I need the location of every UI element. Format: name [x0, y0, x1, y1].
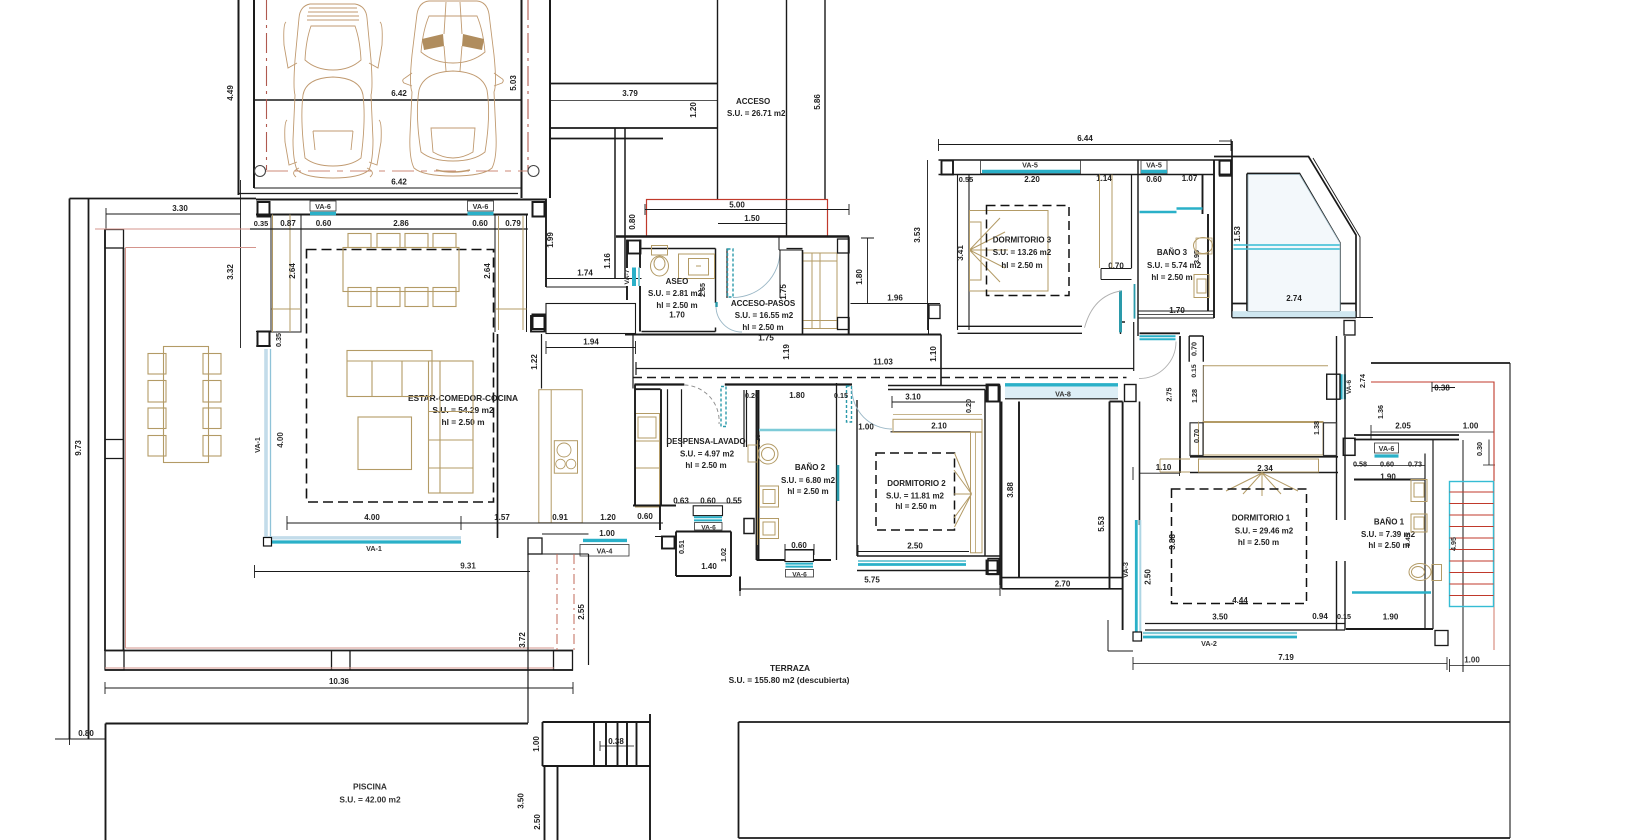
terrace bottom wall double [105, 651, 573, 671]
door frame teal [728, 249, 734, 297]
bottom wall [857, 556, 1000, 571]
svg-text:3.10: 3.10 [905, 393, 921, 402]
wall top (1.90 dim zone) [1354, 465, 1425, 467]
dining table indoor [343, 234, 459, 307]
svg-text:1.00: 1.00 [1463, 422, 1479, 431]
svg-text:2.64: 2.64 [483, 263, 492, 279]
svg-text:2.50: 2.50 [907, 542, 923, 551]
aseo fixtures [651, 246, 715, 279]
svg-text:1.36: 1.36 [1376, 405, 1385, 419]
dim 0.30 [1483, 440, 1495, 466]
dim 1.96 [851, 303, 941, 305]
svg-text:1.40: 1.40 [701, 562, 717, 571]
VA-1 window west (vertical) [253, 349, 285, 540]
closet inner tan lines [272, 215, 302, 333]
svg-text:1.20: 1.20 [689, 102, 698, 118]
right outer boundary [1509, 363, 1511, 838]
0.70 box [1101, 269, 1132, 280]
svg-text:VA-6: VA-6 [792, 572, 807, 579]
svg-text:VA-5: VA-5 [1146, 161, 1162, 170]
dorm2 door arc [852, 389, 892, 429]
svg-text:0.55: 0.55 [726, 497, 742, 506]
VA-6 window bano2 [785, 550, 814, 579]
svg-text:1.16: 1.16 [603, 253, 612, 269]
svg-text:4.00: 4.00 [276, 432, 285, 448]
acceso corridor wall left [717, 0, 719, 199]
corridor dashed line [633, 377, 1127, 379]
bano3 fixtures [1194, 238, 1213, 298]
svg-text:hl = 2.50 m: hl = 2.50 m [1368, 541, 1409, 550]
bed dorm1 [1160, 422, 1337, 497]
svg-text:3.88: 3.88 [1168, 534, 1177, 550]
svg-text:DORMITORIO 2: DORMITORIO 2 [887, 479, 946, 488]
dim 0.80 [55, 733, 105, 745]
svg-text:0.79: 0.79 [505, 219, 521, 228]
red dashed verticals below kitchen [557, 554, 574, 650]
despensa door arc [685, 385, 720, 424]
svg-text:S.U. = 4.97 m2: S.U. = 4.97 m2 [680, 450, 735, 459]
svg-text:1.22: 1.22 [530, 354, 539, 370]
svg-text:10.36: 10.36 [329, 677, 350, 686]
svg-text:TERRAZA: TERRAZA [770, 663, 810, 673]
VA window dorm2 south [858, 560, 966, 562]
house north wall over aseo [616, 235, 849, 237]
dim line 6.42 top [254, 99, 522, 101]
west wall columns [258, 202, 270, 217]
walls [635, 383, 853, 385]
dim 0.38 strike [1432, 382, 1455, 392]
svg-text:1.94: 1.94 [583, 338, 599, 347]
garage south edge [239, 193, 519, 195]
VA-2 window [1133, 632, 1297, 648]
VA-6 vertical window dorm1 NE [1342, 374, 1345, 399]
svg-text:1.53: 1.53 [1233, 226, 1242, 242]
svg-text:DORMITORIO 1: DORMITORIO 1 [1232, 514, 1291, 523]
car 1 [284, 4, 383, 178]
svg-text:3.95: 3.95 [1192, 250, 1201, 264]
VA-1 window south (horizontal) [264, 538, 462, 554]
dim 2.10 [891, 431, 972, 433]
svg-text:1.10: 1.10 [929, 346, 938, 362]
svg-text:S.U. = 2.81 m2: S.U. = 2.81 m2 [648, 289, 703, 298]
dim 1.80 vertical [867, 238, 869, 304]
top wall right area [1371, 362, 1510, 364]
red dash-dot garage edges [267, 0, 529, 170]
svg-text:1.02: 1.02 [719, 548, 728, 562]
svg-text:3.53: 3.53 [913, 227, 922, 243]
small room 1.40 [676, 532, 731, 577]
terrace top edge [70, 198, 257, 200]
svg-text:2.65: 2.65 [698, 283, 707, 297]
walls [1354, 479, 1425, 481]
acceso corridor wall right [824, 0, 826, 199]
west closet band [271, 215, 301, 333]
pool top edge [106, 723, 529, 725]
svg-text:2.20: 2.20 [1024, 175, 1040, 184]
svg-text:1.00: 1.00 [858, 423, 874, 432]
svg-text:DESPENSA-LAVADO: DESPENSA-LAVADO [666, 437, 745, 446]
dim 0.60 [785, 549, 814, 551]
bano2 teal door right [837, 465, 840, 501]
svg-text:2.64: 2.64 [288, 263, 297, 279]
svg-text:2.74: 2.74 [1358, 374, 1367, 388]
dorm3 door arc [1085, 291, 1121, 328]
svg-text:2.86: 2.86 [393, 219, 409, 228]
svg-text:hl = 2.50 m: hl = 2.50 m [895, 502, 936, 511]
bed dorm2 [954, 432, 982, 553]
right wall [1337, 336, 1346, 630]
svg-text:6.42: 6.42 [391, 178, 407, 187]
svg-text:hl = 2.50 m: hl = 2.50 m [1001, 261, 1042, 270]
svg-text:1.07: 1.07 [1182, 174, 1198, 183]
svg-text:VA-6: VA-6 [1379, 444, 1395, 453]
column below [1435, 631, 1448, 646]
dim line top [250, 228, 528, 230]
svg-text:0.45: 0.45 [1405, 533, 1412, 546]
aseo left wall [627, 240, 640, 269]
svg-text:0.70: 0.70 [1108, 262, 1124, 271]
pasos closet [803, 253, 837, 329]
VA-6 window living 1 [310, 201, 336, 214]
bano2 fixtures [748, 440, 779, 545]
svg-text:3.41: 3.41 [956, 245, 965, 261]
svg-text:2.34: 2.34 [1257, 464, 1273, 473]
svg-text:1.80: 1.80 [789, 391, 805, 400]
svg-text:0.60: 0.60 [700, 497, 716, 506]
steps lower box [545, 766, 651, 840]
svg-text:hl = 2.50 m: hl = 2.50 m [742, 323, 783, 332]
VA-4 window [580, 540, 629, 556]
svg-text:5.03: 5.03 [509, 75, 518, 91]
svg-text:3.88: 3.88 [1006, 482, 1015, 498]
svg-text:1.70: 1.70 [669, 311, 685, 320]
teal door frame despensa [721, 387, 726, 427]
north wall living double [256, 200, 546, 215]
bed zone dark lines [1190, 457, 1338, 473]
svg-text:BAÑO 1: BAÑO 1 [1374, 518, 1405, 527]
svg-text:0.30: 0.30 [1475, 442, 1484, 456]
svg-text:5.53: 5.53 [1097, 516, 1106, 532]
bano3 cyan line [1140, 209, 1203, 213]
svg-text:S.U. = 6.80 m2: S.U. = 6.80 m2 [781, 476, 836, 485]
despensa west counter [636, 414, 660, 508]
VA-5 window 1 [981, 161, 1081, 174]
counter below aseo [546, 304, 636, 334]
svg-text:1.19: 1.19 [782, 344, 791, 360]
inner [1247, 174, 1340, 312]
dim line 3.32 vertical [240, 180, 242, 348]
svg-text:2.50: 2.50 [1144, 569, 1153, 585]
svg-text:hl = 2.50 m: hl = 2.50 m [787, 487, 828, 496]
dashed rect dorm3 [987, 206, 1070, 296]
svg-text:0.70: 0.70 [1192, 429, 1201, 443]
vertical wall x1180 [1179, 336, 1181, 473]
svg-text:0.70: 0.70 [1190, 342, 1199, 356]
svg-text:BAÑO 2: BAÑO 2 [795, 463, 826, 472]
svg-text:3.79: 3.79 [622, 89, 638, 98]
west wall lower segment [256, 332, 271, 347]
dim 1.94 [546, 341, 636, 354]
svg-text:VA-8: VA-8 [1055, 390, 1071, 399]
svg-text:0.60: 0.60 [791, 541, 807, 550]
walkway edge top [550, 83, 718, 85]
frame box va6 vertical [1327, 374, 1340, 399]
columns [987, 385, 999, 402]
column bottom-right [554, 651, 573, 671]
dim line 6.42 bottom [254, 187, 522, 189]
svg-text:1.10: 1.10 [1156, 463, 1172, 472]
VA-3 window [1121, 520, 1140, 633]
dim line 3.30 [106, 213, 241, 215]
svg-text:hl = 2.50 m: hl = 2.50 m [656, 301, 697, 310]
wall kitchen-east / steps verticals below [498, 334, 589, 723]
svg-text:ACCESO: ACCESO [736, 97, 770, 106]
svg-text:0.94: 0.94 [1312, 612, 1328, 621]
svg-text:DORMITORIO 3: DORMITORIO 3 [993, 236, 1052, 245]
svg-text:hl = 2.50 m: hl = 2.50 m [685, 461, 726, 470]
svg-text:S.U. = 16.55 m2: S.U. = 16.55 m2 [735, 311, 794, 320]
wardrobe tan lines [1203, 366, 1328, 423]
north wall [939, 160, 1232, 175]
svg-text:4.49: 4.49 [226, 85, 235, 101]
svg-text:2.50: 2.50 [533, 814, 542, 830]
svg-text:BAÑO 3: BAÑO 3 [1157, 248, 1188, 257]
svg-text:9.73: 9.73 [74, 440, 83, 456]
svg-text:0.80: 0.80 [628, 214, 637, 230]
svg-text:1.90: 1.90 [1380, 473, 1396, 482]
bay glass tint [1248, 175, 1340, 312]
left wall [1139, 402, 1141, 526]
svg-text:0.55: 0.55 [959, 175, 973, 184]
wall right of pasos [928, 304, 930, 335]
svg-text:5.00: 5.00 [729, 201, 745, 210]
svg-text:S.U. = 155.80 m2 (descubierta): S.U. = 155.80 m2 (descubierta) [729, 675, 850, 685]
svg-text:0.58: 0.58 [1353, 460, 1367, 469]
svg-text:9.31: 9.31 [460, 562, 476, 571]
svg-text:2.10: 2.10 [931, 422, 947, 431]
svg-text:S.U. = 29.46 m2: S.U. = 29.46 m2 [1235, 527, 1294, 536]
svg-text:VA-6: VA-6 [473, 202, 489, 211]
VA-8 window [988, 385, 1136, 402]
svg-text:ASEO: ASEO [666, 277, 689, 286]
bottom wall [1145, 624, 1345, 631]
dim 1.00 bottom right [1450, 650, 1511, 672]
svg-text:4.44: 4.44 [1232, 596, 1248, 605]
column bottom-right [1344, 321, 1355, 336]
column SE [533, 315, 545, 330]
svg-text:3.50: 3.50 [517, 793, 526, 809]
porch red rect [647, 200, 828, 237]
room walls [727, 249, 803, 299]
svg-text:0.20: 0.20 [964, 399, 973, 413]
dim 0.38 [600, 741, 634, 751]
left vertical wall from garage [545, 199, 547, 288]
svg-text:VA-1: VA-1 [366, 544, 382, 553]
dorm3 door leaf [1119, 291, 1122, 333]
bano1 fixtures [1409, 480, 1442, 581]
closet columns [838, 237, 941, 335]
terrace inner columns band left [105, 230, 124, 652]
svg-text:VA-6: VA-6 [315, 202, 331, 211]
svg-text:3.50: 3.50 [1212, 613, 1228, 622]
svg-text:S.U. = 11.81 m2: S.U. = 11.81 m2 [886, 492, 945, 501]
svg-text:11.03: 11.03 [873, 358, 893, 367]
svg-text:S.U. = 54.29 m2: S.U. = 54.29 m2 [432, 405, 494, 415]
svg-text:1.14: 1.14 [1096, 174, 1112, 183]
outer [1232, 141, 1356, 318]
bay glass cyan [1234, 244, 1341, 246]
svg-text:0.51: 0.51 [677, 540, 686, 554]
svg-text:1.99: 1.99 [546, 232, 555, 248]
corridor south wall (long) [625, 333, 941, 335]
vertical 1463 [1462, 440, 1464, 650]
svg-text:0.80: 0.80 [78, 729, 94, 738]
svg-text:1.57: 1.57 [494, 513, 510, 522]
steps top area [543, 722, 651, 766]
porch dim lines [645, 204, 849, 224]
teal door frame dorm2 [847, 386, 852, 422]
svg-text:0.15: 0.15 [834, 391, 848, 400]
dashed rect dorm1 [1172, 489, 1307, 604]
svg-text:1.75: 1.75 [779, 284, 788, 300]
left wall [856, 400, 858, 556]
svg-text:0.60: 0.60 [1380, 460, 1394, 469]
svg-text:0.20: 0.20 [745, 391, 759, 400]
car 2 [403, 1, 504, 176]
NE column dorm1 [1343, 438, 1355, 455]
svg-text:1.90: 1.90 [1383, 613, 1399, 622]
svg-text:1.28: 1.28 [1190, 389, 1199, 403]
svg-text:VA-6: VA-6 [701, 525, 716, 532]
svg-text:0.15: 0.15 [1191, 364, 1198, 377]
svg-text:5.75: 5.75 [864, 576, 880, 585]
0.70 box upper [1189, 336, 1203, 362]
svg-text:1.00: 1.00 [1464, 656, 1480, 665]
dim 9.31 [255, 565, 531, 578]
circle post left [255, 166, 266, 177]
svg-text:4.95: 4.95 [1449, 537, 1458, 551]
svg-text:ESTAR-COMEDOR-COCINA: ESTAR-COMEDOR-COCINA [408, 393, 518, 403]
south dim line 4.00/1.57 [162, 480, 663, 530]
svg-text:VA-6: VA-6 [1346, 379, 1353, 394]
svg-text:1.70: 1.70 [1169, 306, 1185, 315]
aseo room walls [642, 249, 716, 332]
bano2 cyan top [759, 429, 836, 431]
west wall band [958, 175, 970, 331]
svg-text:VA-4: VA-4 [597, 547, 613, 556]
svg-text:3.30: 3.30 [172, 204, 188, 213]
wall below counter [541, 334, 543, 389]
dims [676, 502, 740, 504]
pool left edge [105, 724, 107, 840]
VA-6 bano1 [1375, 443, 1399, 456]
svg-text:VA-1: VA-1 [253, 437, 262, 453]
svg-text:2.55: 2.55 [577, 604, 586, 620]
svg-text:3.72: 3.72 [518, 632, 527, 648]
svg-text:1.00: 1.00 [532, 736, 541, 752]
dim text garage [226, 75, 518, 187]
svg-text:1.80: 1.80 [855, 269, 864, 285]
dim 10.36 line [105, 682, 573, 694]
svg-text:VA-5: VA-5 [1022, 161, 1038, 170]
dim 1.10 [1133, 456, 1180, 480]
columns [942, 161, 954, 175]
dashed living room area [307, 250, 494, 503]
svg-text:hl = 2.50 m: hl = 2.50 m [1238, 538, 1279, 547]
svg-text:6.42: 6.42 [391, 89, 407, 98]
red dashed ground line [266, 170, 528, 172]
entry door arc [733, 251, 780, 298]
dims bottom dorm1 [1133, 623, 1447, 671]
svg-text:VA-7: VA-7 [624, 269, 631, 284]
svg-text:2.74: 2.74 [1286, 294, 1302, 303]
bano1 cyan [1352, 591, 1431, 593]
column top-left [1220, 161, 1232, 176]
kitchen island + stove [539, 390, 582, 523]
svg-text:2.75: 2.75 [1165, 388, 1174, 402]
svg-text:hl = 2.50 m: hl = 2.50 m [441, 417, 484, 427]
room east wall [1132, 160, 1139, 336]
right wall [985, 386, 1000, 586]
svg-text:0.63: 0.63 [673, 497, 689, 506]
dorm3 closet tan [1100, 175, 1113, 269]
svg-text:1.00: 1.00 [599, 529, 615, 538]
svg-text:1.74: 1.74 [577, 269, 593, 278]
walkway edge bottom [550, 127, 718, 129]
bed dorm3 [970, 211, 1049, 292]
dim 2.05/1.00 [1371, 431, 1494, 433]
svg-text:PISCINA: PISCINA [353, 782, 387, 792]
svg-text:3.32: 3.32 [226, 264, 235, 280]
VA-6 window living 2 [468, 201, 494, 214]
svg-text:0.35: 0.35 [274, 333, 283, 347]
bottom band [1232, 304, 1356, 318]
dim lines bottom [1145, 621, 1433, 623]
svg-text:VA-2: VA-2 [1201, 639, 1217, 648]
svg-text:1.20: 1.20 [600, 513, 616, 522]
VA-7 window aseo [624, 268, 639, 287]
wall garage right double [522, 0, 551, 198]
dim 2.50 [858, 545, 969, 556]
svg-text:0.60: 0.60 [637, 512, 653, 521]
sofa [347, 351, 473, 494]
svg-text:S.U. = 26.71 m2: S.U. = 26.71 m2 [727, 109, 786, 118]
VA-6 window despensa [693, 506, 754, 534]
svg-text:1.38: 1.38 [1312, 421, 1321, 435]
top wall [888, 386, 1000, 390]
walkway lower line [550, 138, 663, 140]
svg-text:2.05: 2.05 [1395, 422, 1411, 431]
svg-text:1.96: 1.96 [887, 294, 903, 303]
svg-text:0.60: 0.60 [472, 219, 488, 228]
dashed rect dorm2 [876, 453, 955, 530]
terrace pink inner lines [95, 229, 554, 668]
outdoor dining table [148, 347, 221, 463]
svg-text:5.86: 5.86 [813, 94, 822, 110]
svg-text:0.60: 0.60 [316, 219, 332, 228]
svg-text:S.U. = 13.26 m2: S.U. = 13.26 m2 [993, 248, 1052, 257]
wall vertical at 941 [940, 335, 942, 386]
east wall band (kitchen side) [495, 215, 527, 333]
svg-text:0.87: 0.87 [280, 219, 296, 228]
svg-text:0.35: 0.35 [254, 219, 268, 228]
terrace outer boundary left [69, 199, 71, 740]
dim 3.10 box [892, 396, 975, 408]
svg-text:VA-3: VA-3 [1121, 562, 1130, 578]
svg-text:0.38: 0.38 [608, 737, 624, 746]
south wall dorm3 [958, 322, 1126, 334]
svg-text:4.00: 4.00 [364, 513, 380, 522]
